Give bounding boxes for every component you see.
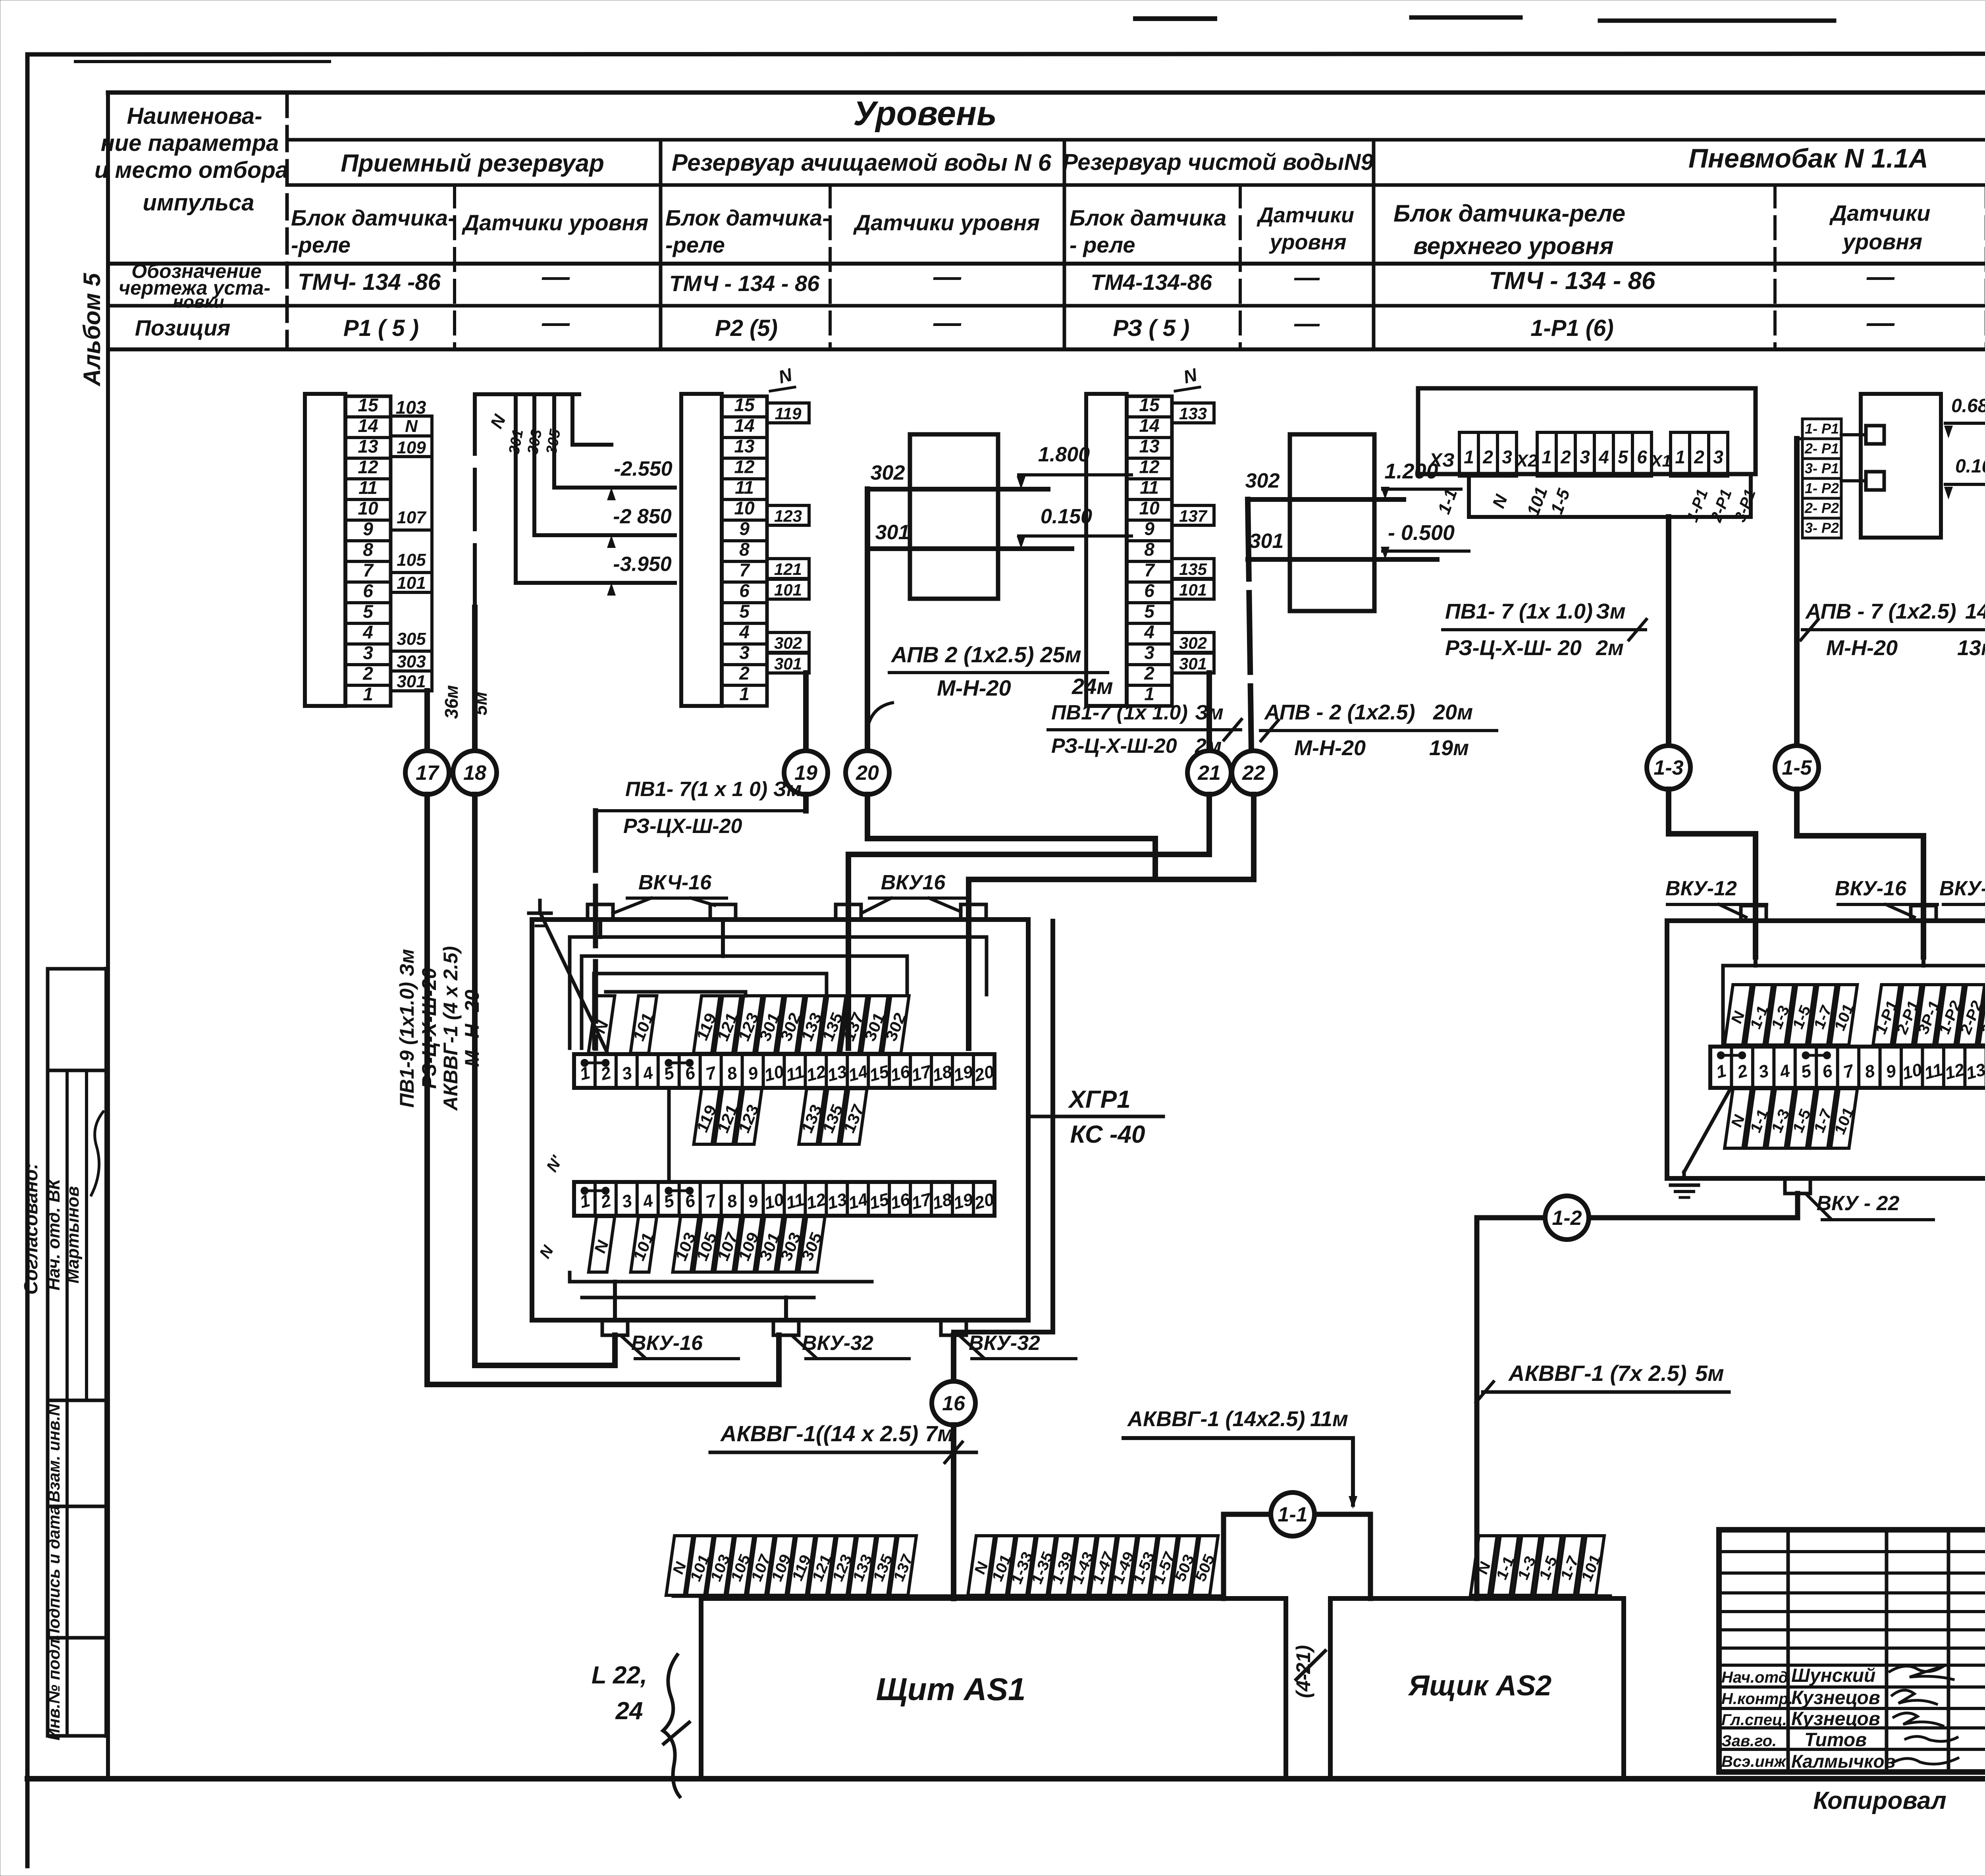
svg-text:Альбом 5: Альбом 5 (79, 272, 105, 387)
XTR1 ground diagonal (1684, 1088, 1731, 1172)
XTR1 top tab 1 (1741, 906, 1766, 921)
svg-text:13: 13 (825, 1190, 849, 1213)
svg-text:Резервуар ачищаемой воды N 6: Резервуар ачищаемой воды N 6 (672, 149, 1052, 176)
tag 101 above XTR1 col 7 (1828, 985, 1861, 1045)
svg-text:2: 2 (1144, 663, 1154, 683)
svg-text:Приемный резервуар: Приемный резервуар (341, 150, 604, 177)
svg-text:3: 3 (1757, 1061, 1771, 1082)
wire 302 down to circle 20 (865, 489, 870, 751)
tag 1-Р2 above XTR1 col 12 (1933, 985, 1968, 1045)
relay tag stack 1-P1..3-P2 (1802, 419, 1841, 439)
wire 1-2 down to AS2 (1474, 1218, 1480, 1598)
cable core tag 1-3 (1511, 1536, 1543, 1595)
tag N above row A col 2 (587, 996, 616, 1053)
link line 1 (1841, 433, 1866, 436)
svg-text:Х1: Х1 (1650, 451, 1671, 470)
terminal block at x=2736 (1086, 394, 1127, 706)
svg-text:15: 15 (867, 1190, 891, 1213)
sensor box 4b (1290, 434, 1374, 611)
svg-text:ВКУ-16: ВКУ-16 (631, 1332, 703, 1355)
svg-text:4: 4 (1144, 621, 1154, 642)
svg-text:—: — (1294, 309, 1320, 337)
svg-text:Датчики уровня: Датчики уровня (853, 210, 1040, 235)
svg-text:1.800: 1.800 (1038, 443, 1090, 466)
svg-text:17: 17 (416, 762, 439, 785)
side tag 119 (767, 403, 809, 423)
svg-text:301: 301 (774, 654, 802, 673)
terminal block 1 cells (345, 396, 391, 706)
svg-text:Вcэ.инж: Вcэ.инж (1721, 1753, 1787, 1770)
svg-text:—: — (1866, 261, 1895, 292)
circle 1-1 (1271, 1492, 1314, 1536)
tag 101 above row A col 4 (627, 996, 660, 1053)
svg-text:8: 8 (363, 539, 373, 560)
svg-text:уровня: уровня (1842, 229, 1922, 254)
svg-text:2- Р2: 2- Р2 (1804, 500, 1839, 516)
svg-text:1-2: 1-2 (1552, 1207, 1582, 1230)
svg-text:N': N' (543, 1153, 566, 1175)
svg-text:6: 6 (1820, 1061, 1835, 1082)
svg-text:22: 22 (1242, 762, 1265, 785)
XGR1 ground diagonal (541, 914, 607, 1053)
svg-text:3: 3 (620, 1063, 634, 1084)
svg-text:3: 3 (1502, 447, 1512, 467)
svg-text:Ящик АS2: Ящик АS2 (1408, 1670, 1551, 1702)
svg-text:13: 13 (825, 1062, 849, 1085)
svg-text:10: 10 (1139, 497, 1160, 518)
svg-text:РЗ ( 5 ): РЗ ( 5 ) (1113, 315, 1190, 341)
svg-text:Датчики: Датчики (1257, 203, 1354, 227)
svg-text:ВКУ-12: ВКУ-12 (1665, 877, 1737, 900)
svg-text:9: 9 (746, 1063, 760, 1084)
svg-text:16: 16 (888, 1190, 912, 1213)
circle 22 (1232, 751, 1276, 794)
svg-text:—: — (1866, 307, 1895, 338)
circle 1-5 (1775, 746, 1819, 789)
tag 123 below row A col 9 (732, 1089, 765, 1144)
svg-text:Позиция: Позиция (135, 315, 231, 340)
svg-text:7м: 7м (925, 1421, 954, 1446)
svg-text:Нач. отд. ВК: Нач. отд. ВК (44, 1178, 64, 1291)
circle 1-3 (1647, 746, 1690, 789)
svg-text:3: 3 (739, 642, 750, 663)
tag 1-3 below XTR1 col 4 (1765, 1089, 1796, 1148)
svg-text:12: 12 (358, 457, 378, 477)
svg-text:301: 301 (397, 672, 426, 691)
terminal block at x=1716 (681, 394, 722, 706)
svg-text:1-1: 1-1 (1434, 486, 1461, 517)
svg-text:—: — (1294, 263, 1320, 291)
cable core tag 107 (745, 1536, 777, 1595)
svg-text:4: 4 (640, 1191, 655, 1212)
XGR1 upper terminal row (574, 1054, 994, 1088)
svg-text:13: 13 (1964, 1060, 1985, 1083)
svg-text:и место отбора: и место отбора (94, 157, 288, 183)
svg-text:21: 21 (1197, 762, 1221, 785)
svg-text:N: N (1489, 492, 1511, 511)
svg-text:-2.550: -2.550 (614, 457, 673, 480)
cable core tag 119 (786, 1536, 818, 1595)
cable core tag 1-5 (1533, 1536, 1564, 1595)
title block outline (1719, 1530, 1985, 1772)
svg-text:Н.контр.: Н.контр. (1721, 1690, 1793, 1708)
svg-text:11: 11 (784, 1190, 806, 1213)
svg-text:15: 15 (867, 1062, 891, 1085)
svg-text:4: 4 (1777, 1061, 1792, 1082)
svg-text:Наименова-: Наименова- (127, 103, 262, 129)
svg-text:13: 13 (358, 436, 378, 457)
XGR1 top tab 3 (836, 904, 861, 920)
svg-text:7: 7 (363, 560, 374, 580)
table row line under Uroven (287, 138, 1985, 142)
svg-text:Нач.отд: Нач.отд (1721, 1669, 1788, 1686)
svg-text:ВКУ-16: ВКУ-16 (1835, 877, 1907, 900)
page bottom border (27, 1776, 1985, 1782)
XGR1 lower terminal row (574, 1182, 994, 1216)
tag N below row B col 2 (587, 1217, 616, 1272)
svg-text:Гл.спец.: Гл.спец. (1721, 1711, 1787, 1729)
side tag 137 (1172, 505, 1214, 525)
tag 121 above row A col 8 (711, 996, 744, 1053)
svg-text:АПВ - 2 (1х2.5): АПВ - 2 (1х2.5) (1264, 700, 1415, 724)
svg-text:-реле: -реле (665, 232, 725, 257)
cable core tag 101 (986, 1536, 1018, 1595)
svg-text:303: 303 (397, 652, 426, 671)
cable core tag 101 (1575, 1536, 1608, 1595)
svg-text:9: 9 (746, 1191, 760, 1212)
tag 101 below XTR1 col 7 (1828, 1089, 1861, 1148)
table col divider name/first (285, 93, 289, 349)
tag 103 below row B col 6 (669, 1217, 702, 1272)
svg-text:1: 1 (363, 684, 373, 704)
svg-text:6: 6 (1637, 447, 1647, 467)
svg-text:3-Р1: 3-Р1 (1731, 487, 1759, 524)
wire 21 jog (848, 794, 1209, 1048)
riser 4 stub (572, 394, 611, 445)
wire from block3 to circle 19 (803, 673, 809, 751)
svg-text:305: 305 (397, 629, 426, 649)
svg-text:0.684: 0.684 (1951, 395, 1985, 416)
svg-text:15: 15 (1139, 394, 1160, 415)
circle 16 wire lower (951, 1425, 956, 1598)
svg-text:14: 14 (846, 1062, 870, 1085)
side tag 135 (1172, 559, 1214, 578)
svg-text:ПВ1- 7(1 х 1 0) Зм: ПВ1- 7(1 х 1 0) Зм (625, 778, 802, 801)
XGR1 top tab 4 (961, 904, 986, 920)
svg-text:Шунский: Шунский (1791, 1665, 1875, 1686)
svg-text:ПВ1- 7 (1х 1.0): ПВ1- 7 (1х 1.0) (1445, 600, 1593, 623)
svg-text:- 0.500: - 0.500 (1388, 521, 1455, 545)
circle 1-2 (1545, 1196, 1589, 1240)
side tag 302 (767, 632, 809, 652)
svg-text:2: 2 (1482, 447, 1493, 467)
svg-text:105: 105 (397, 550, 426, 570)
svg-text:4: 4 (362, 622, 373, 642)
svg-text:М-Н-20: М-Н-20 (1826, 636, 1898, 660)
svg-text:1-5: 1-5 (1547, 486, 1574, 517)
cable core tag 1-33 (1005, 1536, 1039, 1595)
svg-text:5: 5 (1618, 447, 1628, 467)
svg-text:10: 10 (762, 1062, 786, 1085)
svg-text:2м: 2м (1596, 636, 1624, 660)
wire from block5 to circle 21 (1206, 673, 1212, 751)
svg-text:Инв.№ подл.: Инв.№ подл. (44, 1634, 63, 1740)
svg-text:РЗ-Ц-Х-Ш-20: РЗ-Ц-Х-Ш-20 (418, 968, 440, 1089)
XGR1 inter-row link (667, 1088, 671, 1182)
svg-text:1: 1 (1675, 447, 1685, 467)
svg-text:5: 5 (363, 601, 374, 622)
tag 301 below row B col 10 (754, 1217, 786, 1272)
svg-text:М-Н-20: М-Н-20 (1294, 736, 1366, 760)
svg-text:2: 2 (362, 663, 373, 684)
svg-text:8: 8 (725, 1191, 739, 1212)
svg-text:137: 137 (1179, 507, 1208, 525)
link line 2 (1841, 479, 1866, 482)
svg-text:N: N (405, 416, 418, 436)
tag 301 above row A col 10 (753, 996, 786, 1053)
tag N above XTR1 col 2 (1724, 985, 1752, 1045)
svg-text:Блок датчика-реле: Блок датчика-реле (1393, 200, 1625, 227)
svg-text:ВКУ-32: ВКУ-32 (802, 1332, 873, 1355)
tag 302 above row A col 11 (774, 996, 807, 1053)
svg-text:301: 301 (875, 521, 910, 544)
svg-text:9: 9 (1144, 518, 1154, 539)
svg-text:5м: 5м (470, 692, 491, 715)
svg-text:—: — (933, 307, 962, 338)
svg-text:12: 12 (804, 1190, 828, 1213)
svg-text:РЗ-Ц-Х-Ш-20: РЗ-Ц-Х-Ш-20 (1051, 735, 1177, 758)
XGR1 bus lines below row B (570, 1280, 872, 1284)
wire 19 down into box (803, 794, 809, 811)
side tag 301 (1172, 653, 1214, 673)
table sub dividers (453, 185, 456, 349)
wire from tab3 outside right (954, 921, 1053, 1332)
svg-text:133: 133 (1179, 404, 1207, 423)
svg-text:6: 6 (363, 580, 373, 601)
svg-text:14: 14 (1139, 415, 1159, 436)
svg-text:101: 101 (774, 580, 802, 599)
tag 137 above row A col 14 (837, 996, 871, 1053)
svg-text:4: 4 (1598, 447, 1609, 467)
svg-text:12: 12 (1943, 1060, 1967, 1084)
tag 1-5 above XTR1 col 5 (1786, 985, 1818, 1045)
svg-text:18: 18 (931, 1190, 954, 1213)
svg-text:Блок датчика-: Блок датчика- (665, 205, 830, 230)
cable core tag 105 (725, 1536, 757, 1595)
XGR1 ground symbol (538, 900, 542, 913)
svg-text:1: 1 (1542, 447, 1552, 467)
cable core tag N (1470, 1536, 1498, 1595)
side tag 302 (1172, 632, 1214, 652)
cable core tag 101 (684, 1536, 717, 1595)
svg-text:3- Р2: 3- Р2 (1805, 520, 1839, 536)
svg-text:10: 10 (1900, 1060, 1924, 1084)
svg-text:РЗ-ЦХ-Ш-20: РЗ-ЦХ-Ш-20 (623, 815, 742, 838)
svg-text:Резервуар чистой водыN9: Резервуар чистой водыN9 (1062, 149, 1373, 175)
tag 2-Р1 above XTR1 col 10 (1891, 985, 1925, 1045)
table group dividers (659, 140, 663, 349)
svg-text:11м: 11м (1310, 1407, 1348, 1431)
svg-text:Зм: Зм (1596, 600, 1626, 623)
riser 301 wire to level -3.950 (516, 394, 675, 583)
svg-text:5: 5 (739, 601, 750, 621)
svg-text:Пневмобак N 1.1А: Пневмобак N 1.1А (1688, 143, 1928, 174)
svg-text:101: 101 (1179, 580, 1207, 599)
tag 2-Р2 above XTR1 col 13 (1954, 985, 1985, 1045)
svg-text:15: 15 (734, 394, 755, 415)
wire 22 jog (969, 794, 1254, 1048)
svg-text:Блок датчика-: Блок датчика- (291, 205, 455, 230)
strip hanging bracket (1469, 476, 1751, 517)
svg-text:ПВ1-7 (1х 1.0): ПВ1-7 (1х 1.0) (1051, 701, 1188, 724)
svg-text:9: 9 (1884, 1061, 1898, 1082)
tag 3-Р2 above XTR1 col 14 (1976, 985, 1985, 1045)
svg-text:1: 1 (739, 683, 750, 704)
svg-text:ТМ4-134-86: ТМ4-134-86 (1091, 270, 1212, 295)
XTR1 bus lines above row (1723, 964, 1985, 968)
wire 1-5 down (1797, 789, 1923, 957)
circle 16 wire upper (951, 1335, 956, 1381)
svg-text:301: 301 (1249, 530, 1284, 553)
svg-text:14: 14 (846, 1190, 870, 1213)
svg-text:101: 101 (1523, 484, 1551, 519)
side tag 121 (767, 559, 809, 578)
svg-text:7: 7 (1144, 559, 1155, 580)
circle 20 (846, 751, 889, 794)
tag 135 above row A col 13 (816, 996, 850, 1053)
svg-text:7: 7 (704, 1062, 719, 1084)
riser 303 wire to level -2.850 (534, 394, 675, 535)
XGR1 tab drops (598, 920, 602, 937)
svg-text:5м: 5м (1695, 1361, 1724, 1386)
svg-text:АПВ - 7 (1х2.5): АПВ - 7 (1х2.5) (1805, 600, 1956, 623)
svg-text:Кузнецов: Кузнецов (1791, 1687, 1880, 1708)
cable core tag N (967, 1536, 996, 1595)
svg-text:1-Р1 (6): 1-Р1 (6) (1530, 315, 1614, 341)
svg-text:12: 12 (804, 1062, 828, 1085)
tag N below XTR1 col 2 (1724, 1089, 1753, 1148)
tag 133 below row A col 12 (796, 1089, 829, 1144)
svg-text:10: 10 (734, 497, 755, 518)
circle 21 (1187, 751, 1231, 794)
wire 17 run (427, 794, 779, 1384)
svg-text:6: 6 (739, 580, 750, 601)
svg-text:36м: 36м (441, 685, 462, 719)
XTR1 bottom tab 1 (1785, 1178, 1810, 1193)
svg-text:8: 8 (739, 539, 750, 559)
tag 303 below row B col 11 (775, 1217, 807, 1272)
svg-text:L 22,: L 22, (592, 1662, 647, 1689)
svg-text:0.150: 0.150 (1041, 505, 1092, 528)
svg-text:19: 19 (952, 1190, 975, 1213)
svg-text:Взам. инв.N: Взам. инв.N (44, 1403, 63, 1502)
junction box XTR1-1 outline (1667, 921, 1985, 1178)
svg-text:11: 11 (735, 477, 754, 497)
svg-text:24м: 24м (1072, 674, 1113, 699)
svg-text:9: 9 (363, 519, 373, 539)
svg-text:Кузнецов: Кузнецов (1791, 1708, 1880, 1729)
svg-text:9: 9 (739, 518, 750, 539)
svg-text:107: 107 (397, 508, 427, 527)
tag 301 above row A col 15 (858, 996, 892, 1053)
wire 1-3 down (1669, 789, 1756, 957)
table row line under TMCH row (108, 304, 1985, 308)
tag 119 below row A col 7 (690, 1089, 723, 1144)
cable core tag N (665, 1536, 694, 1595)
connector strip at x=3572 (1418, 388, 1756, 474)
riser group top bar (475, 392, 579, 396)
table row line under group headers (287, 183, 1985, 187)
XGR1 top tab 1 (588, 904, 613, 920)
svg-text:ПВ1-9 (1х1.0) Зм: ПВ1-9 (1х1.0) Зм (396, 949, 418, 1108)
title block signature columns (1786, 1530, 1790, 1772)
svg-text:2-Р1: 2-Р1 (1707, 487, 1735, 524)
cable core tag 1-47 (1087, 1536, 1120, 1595)
svg-text:7: 7 (739, 559, 750, 580)
svg-text:-3.950: -3.950 (613, 553, 672, 576)
junction box XGR1 outline (532, 920, 1028, 1320)
page top border (27, 54, 1985, 54)
svg-text:15: 15 (358, 395, 379, 415)
tag 109 below row B col 9 (732, 1217, 765, 1272)
XTR1 top tab 2 (1911, 906, 1936, 921)
svg-text:11: 11 (1922, 1060, 1945, 1084)
svg-text:3: 3 (1580, 447, 1590, 467)
title block signature rows (1719, 1550, 1985, 1553)
cable core tag 121 (806, 1536, 838, 1595)
tag 123 above row A col 9 (732, 996, 765, 1053)
cable core tag 135 (867, 1536, 900, 1595)
svg-text:8: 8 (1863, 1061, 1877, 1082)
block1 tag column boxes (391, 416, 432, 436)
top smudge dashes (1135, 16, 1215, 21)
svg-text:301: 301 (1179, 654, 1207, 673)
left margin strip frame (46, 969, 50, 1736)
svg-text:АКВВГ-1 (14х2.5): АКВВГ-1 (14х2.5) (1127, 1407, 1305, 1431)
svg-text:14: 14 (358, 415, 378, 436)
svg-text:2: 2 (1694, 447, 1704, 467)
svg-text:3: 3 (620, 1191, 634, 1212)
svg-text:4: 4 (739, 621, 750, 642)
svg-text:—: — (542, 261, 570, 292)
svg-text:ХГР1: ХГР1 (1068, 1086, 1130, 1113)
svg-text:N: N (1181, 364, 1199, 388)
cable core tag 1-35 (1025, 1536, 1059, 1595)
svg-text:302: 302 (871, 461, 905, 484)
cable core tag 1-49 (1107, 1536, 1141, 1595)
svg-text:ТМЧ - 134 - 86: ТМЧ - 134 - 86 (669, 271, 820, 296)
svg-text:12: 12 (734, 456, 755, 477)
svg-text:ВКЧ-16: ВКЧ-16 (638, 871, 712, 894)
circle 17 (405, 751, 449, 794)
strip wire down (1666, 517, 1671, 746)
svg-text:3: 3 (1713, 447, 1723, 467)
tag 1-7 above XTR1 col 6 (1807, 985, 1839, 1045)
cable core tag 109 (765, 1536, 798, 1595)
svg-text:24: 24 (615, 1697, 643, 1725)
svg-text:1-3: 1-3 (1654, 756, 1683, 779)
side tag 123 (767, 505, 809, 525)
cable core tag 1-43 (1066, 1536, 1100, 1595)
circle 19 (784, 751, 828, 794)
svg-text:Уровень: Уровень (853, 94, 997, 133)
svg-text:Блок датчика: Блок датчика (1070, 205, 1226, 230)
svg-text:109: 109 (397, 438, 426, 457)
svg-text:Датчики уровня: Датчики уровня (462, 210, 649, 235)
svg-text:верхнего уровня: верхнего уровня (1413, 233, 1614, 259)
cable core tag 133 (846, 1536, 879, 1595)
svg-text:АПВ 2 (1х2.5) 25м: АПВ 2 (1х2.5) 25м (890, 642, 1081, 667)
